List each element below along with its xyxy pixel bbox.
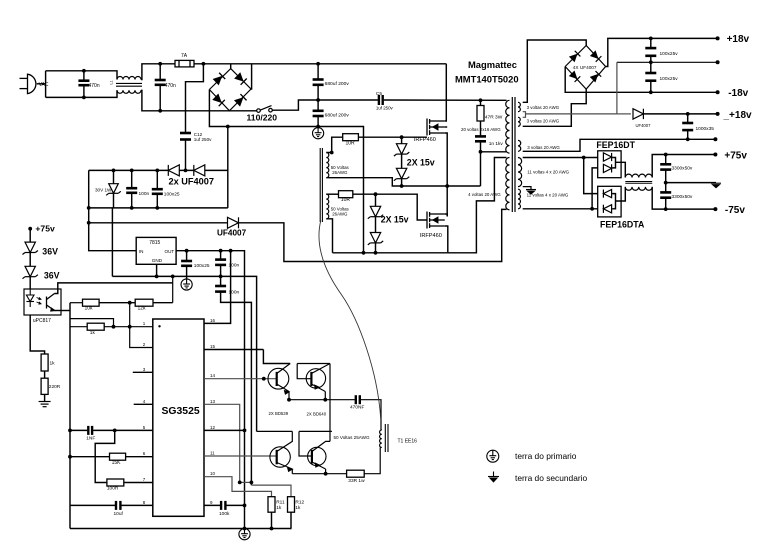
junction source rail zener [374,251,378,255]
transistor Q5 bar [276,450,278,465]
wire 100x25 col2 [156,194,158,208]
junction pin9 vcc [243,504,247,508]
wire pin4 stub [134,403,153,405]
wire Q1 mid stub [445,126,447,128]
junction zener1 bottom rail [400,184,404,188]
capacitor 3300x50v a [660,164,671,169]
junction 470n2 top [158,62,162,66]
svg-text:100x25: 100x25 [164,192,180,198]
svg-text:1000x35: 1000x35 [696,126,715,132]
junction sec4 branch [582,156,586,160]
wire 7815 GND pin [156,264,158,276]
svg-text:2X BD640: 2X BD640 [307,411,327,416]
wire Q2 drain [445,214,447,217]
svg-text:2X 15v: 2X 15v [381,214,409,224]
junction pin1 vert [128,325,132,329]
wire zener chain2 [375,194,377,253]
wire aux branch vertical [227,127,229,208]
wire pin16 line [204,251,231,324]
diode D2 UF4007 aux [194,165,205,176]
svg-text:20 voltas 2x16 AWG: 20 voltas 2x16 AWG [461,127,501,132]
transformer T1 primary core [385,424,388,452]
wire lower rail2 [299,430,332,432]
svg-text:1uf 250v: 1uf 250v [376,106,394,111]
svg-text:470NF: 470NF [350,404,364,410]
svg-text:36V: 36V [44,271,60,281]
wire primary2 top path [448,158,507,253]
svg-text:UF4007: UF4007 [636,123,652,128]
rectifier U4 FEP16DTA box [598,186,621,217]
wire opto collector drop [172,276,174,302]
wire upper rail2 [297,363,330,365]
zener ZD3 15v [368,206,383,218]
svg-text:470n: 470n [165,83,176,89]
wire Q1 source [445,133,447,217]
wire Q3 emitter drop [288,392,290,400]
svg-text:1NF: 1NF [86,436,95,442]
wire mid18 rail [617,61,718,63]
wire pin6 line b [126,456,153,458]
wire AC bottom to choke [46,90,117,97]
wire pin5 line b [93,429,153,431]
svg-text:12: 12 [210,425,216,430]
wire pin9 line b [226,504,244,506]
svg-text:1k: 1k [276,505,282,511]
junction +18 cap [649,37,653,41]
junction aux bottom 100x25 [155,206,159,210]
curve T1 coupling [319,221,381,421]
wire snubber col [480,100,482,105]
svg-text:IRFP460: IRFP460 [420,233,442,239]
transistor Q5 emitter [277,463,293,472]
wire +75 rail [652,155,715,178]
transistor Q6 BD640 circle [308,447,326,465]
wire AC left vertical [45,71,47,98]
transformer T2 secondary 3 [518,140,521,151]
wire 470n2 top stub [159,64,161,80]
terminal _+18v [716,112,720,116]
diode bridge B2 top-left [569,51,580,62]
wire 1k to pin1 [104,326,153,328]
junction pin6 left [68,455,72,459]
junction source rail minus [362,251,366,255]
wire source rail [333,252,448,254]
wire 1000x35 col2 [687,130,689,139]
wire cap100x25a col2 [650,56,652,63]
wire pin1 net vert [130,303,153,348]
wire FEPDT out [616,162,626,177]
wire minus bus [209,90,363,253]
svg-text:2X 15v: 2X 15v [407,158,435,168]
svg-text:C5: C5 [376,91,382,97]
transformer T2 primary 2 [506,158,510,210]
transistor Q4 emitter [311,384,325,392]
resistor 33R 1W [347,470,365,477]
wire Q2 source [445,226,448,253]
svg-text:470n: 470n [89,83,100,89]
legend ground primary symbol [487,450,499,462]
junction top rail C12 branch [202,62,206,66]
wire C5 to primary [384,99,507,101]
wire LED cathode [30,315,44,354]
svg-text:Magmattec: Magmattec [468,59,517,70]
wire 10k line [70,302,83,304]
wire top rail after fuse [194,63,446,65]
wire secB bottom down [326,219,332,253]
svg-text:10uf: 10uf [114,511,124,517]
svg-text:3 voltas 20 AWG: 3 voltas 20 AWG [527,145,560,150]
wire lower rail1 [257,430,293,432]
wire snubber bottom [480,141,482,152]
resistor 100R [107,479,124,486]
junction top rail bulk cap [316,62,320,66]
svg-text:220R: 220R [49,384,61,390]
junction +75 cap [664,153,668,157]
resistor 220R [41,378,48,394]
svg-text:1k: 1k [295,505,301,511]
svg-text:7A: 7A [181,53,188,59]
svg-text:T1 EE16: T1 EE16 [398,439,418,445]
capacitor 470NF [356,395,360,404]
wire opto emitter [55,310,71,312]
wire sec1 top to bridge2 [523,40,587,102]
ground primary SG3525 [239,529,250,540]
transistor Q4 BD640 circle [306,369,325,388]
wire pin5 line a [70,429,87,431]
inductor L1 core [116,83,142,86]
wire pin15 drop [263,350,290,364]
wire Q6 base drop [299,431,312,456]
zener 36V a [23,242,38,254]
svg-text:100x25: 100x25 [194,263,210,269]
svg-text:1uf 250v: 1uf 250v [194,137,212,142]
wire UF4007 to feedback [239,209,507,261]
junction center rail mosfet [445,184,449,188]
capacitor 1000x35 [682,123,693,130]
svg-text:100R: 100R [107,485,119,491]
wire 100n2 col2 [221,292,252,486]
wire branch to FEPDTA d1 [584,158,598,194]
switch SW1 110/220 [257,106,273,113]
resistor 10R gate2 [339,191,353,198]
wire Q6 collector [312,441,330,451]
junction pin5 left [68,429,72,433]
wire 100x25 to gnd circle [186,266,188,279]
diode FEP16DT d2 [603,164,611,172]
capacitor 470n X2 input [78,81,89,86]
terminal -75v [713,207,717,211]
svg-text:50 Voltas 25AWG: 50 Voltas 25AWG [334,435,371,440]
optocoupler LED [26,289,41,307]
wire 1k loop [70,319,114,327]
transistor Q3 BD539 circle [268,368,289,389]
IC U1 SG3525 body [153,319,204,516]
wire FEPDTA out [616,187,626,201]
terminal mid18 [716,60,720,64]
junction secA top [330,151,334,155]
rectifier U3 FEP16DT box [598,151,621,178]
wire aux to 7815 IN [89,170,137,250]
svg-text:26AWG: 26AWG [332,170,348,175]
junction y482 b [250,481,254,485]
svg-text:16: 16 [210,318,216,323]
junction sec5 branch [590,207,594,211]
wire sec4 top to FEP [523,157,598,159]
wire sense col2 [29,253,31,267]
transistor Q2 IRFP460 bottom [427,212,445,229]
svg-text:FEP16DTA: FEP16DTA [600,219,645,229]
wire UF4007 feedback line [89,222,228,224]
svg-text:4 voltas 20 AWG: 4 voltas 20 AWG [468,192,501,197]
capacitor 100x25v a [645,48,656,56]
svg-text:+18v: +18v [727,34,750,45]
junction GND 100n1 [219,275,223,279]
wire pin11 line [204,455,277,457]
svg-text:15K: 15K [112,460,122,466]
svg-text:1k: 1k [50,361,56,367]
wire opto emitter rail [69,303,71,529]
wire 100x25 col [156,170,158,188]
wire AC top to choke [46,71,117,80]
diode bridge B2 bottom-left [569,71,580,82]
wire between bulk caps [317,85,319,110]
junction gnd rail 1000x35 [686,137,690,141]
wire R12 bottom [290,512,292,528]
capacitor 100k [221,501,225,510]
junction aux to UF4007 line [87,221,91,225]
capacitor 10uf [116,501,120,510]
wire 10R to gate1 [358,136,427,138]
wire pin9 line a [204,504,220,506]
svg-text:14: 14 [210,373,216,378]
ground earth divider [39,402,51,407]
wire 100n1 col [220,251,222,259]
transformer T1 secondary B [326,194,328,219]
junction pin14 line [262,377,266,381]
junction OUT 100x25 [185,249,189,253]
junction minus bus cap [316,125,320,129]
wire Q1 drain [445,64,447,121]
transistor Q6 bar [311,450,313,464]
wire FEPDTA join [612,194,615,209]
wire sec3 bottom to gnd rail [523,139,716,151]
capacitor 100x25 out [181,261,192,266]
diode bridge B2 bottom-right [590,71,601,82]
junction mid75 cap [664,181,668,185]
wire pin13 line [204,404,240,482]
terminal +75v sense [28,227,32,231]
diode bridge B1 top-left [213,73,226,86]
wire 100n2 col [220,276,222,285]
junction minus bus aux [226,125,230,129]
capacitor C12 1uf 250v [180,133,191,140]
junction R11 rail [270,527,274,531]
wire 100n col2 [131,193,133,208]
wire y482 link [240,481,252,483]
terminal +75v [713,153,717,157]
wire primary1 bottom [481,151,507,153]
svg-text:+75v: +75v [724,150,747,161]
diode bridge B1 bottom-right [234,94,247,107]
wire GND line [112,276,256,431]
wire R12 top line [251,485,291,497]
wire Q5 emitter drop [291,469,293,474]
diode D4 UF4007 18v [633,109,643,119]
svg-text:36V: 36V [42,247,58,257]
wire Q5 collector [277,431,293,451]
wire R11 bottom [271,512,273,528]
wire 100n1 col2 [220,265,222,277]
wire zener 30V column [113,170,115,183]
wire plug to filter top [37,83,46,85]
wire zener 30V bottom [113,193,115,208]
svg-text:FEP16DT: FEP16DT [596,140,635,150]
wire _+18 rail [643,113,717,115]
resistor R12 1k [288,497,295,513]
ground primary at 7815 [181,279,192,290]
svg-text:terra do primario: terra do primario [515,451,577,461]
wire aux bottom rail [89,207,228,209]
transformer T2 core [512,97,515,212]
transformer T2 secondary 5 [518,189,520,209]
wire zener col to GND line [111,208,113,277]
wire FEPDT join [612,158,615,168]
transformer T2 secondary 4 [518,158,522,187]
svg-text:680uf 200v: 680uf 200v [325,81,350,87]
terminal -18v [716,90,720,94]
wire 10R2 to gate2 [353,194,427,220]
junction pin5 mid [113,429,117,433]
svg-text:-75v: -75v [725,205,745,216]
svg-text:_+18v: _+18v [723,110,753,121]
junction 1000x35 top [686,112,690,116]
diode D3 UF4007 [228,217,239,228]
svg-text:10R: 10R [346,141,356,147]
svg-text:13: 13 [210,399,216,404]
junction OUT 100n [219,249,223,253]
wire bridge right stub [250,64,253,89]
svg-text:10R: 10R [341,197,351,203]
svg-text:SG3525: SG3525 [162,406,200,417]
svg-text:7815: 7815 [149,240,160,246]
wire Q4 collector [311,364,330,374]
resistor 10k [83,299,100,306]
svg-text:terra do secundario: terra do secundario [515,473,588,483]
wire secB top to 10R2 [326,193,338,195]
transistor Q3 emitter [277,384,289,394]
wire Q4 base drop [297,364,311,379]
wire PNP collector bus [329,364,331,442]
wire R11 top [268,491,271,496]
wire aux rail [89,169,228,171]
svg-text:10: 10 [210,471,216,476]
wire pin8 line a [70,504,115,506]
wire 3300b col2 [665,198,667,209]
junction mid18 cap [649,60,653,64]
transformer T1 primary [380,430,382,448]
zener 36V b [23,266,38,278]
capacitor 470n second [155,80,166,85]
svg-text:110/220: 110/220 [247,112,278,122]
capacitor 680uf 200v top [313,80,324,85]
junction gate2 zener [374,192,378,196]
wire Q3 collector [277,364,291,374]
ground primary at bulk caps [313,128,324,139]
fuse F1 7A [175,60,194,67]
wire pin8 line b [121,504,152,506]
wire pin7 line [124,482,153,484]
junction aux bottom 100n [130,206,134,210]
svg-text:2x UF4007: 2x UF4007 [169,177,214,187]
wire 100x25 out col [186,251,188,260]
junction Q4 out [323,398,327,402]
zener ZD1 15v [394,144,409,156]
wire -75 rail [652,187,715,209]
resistor R11 1k [268,497,275,513]
wire pin15 line [204,349,263,351]
junction -18 cap [649,90,653,94]
wire +18 rail [606,38,718,66]
svg-text:1n 1kv: 1n 1kv [489,141,504,147]
svg-text:10k: 10k [85,306,94,312]
wire pin14 line [204,378,277,380]
wire pin6 line a [70,456,110,458]
junction bottom rail gnd [243,527,247,531]
wire -18 rail [565,67,717,93]
junction pin12 vcc [243,429,247,433]
capacitor 1n 1kv [475,136,486,141]
svg-text:IRFP460: IRFP460 [414,137,436,143]
inductor L2 +75 choke [625,174,652,177]
junction snubber top [479,98,483,102]
svg-text:3 voltas 20 AWG: 3 voltas 20 AWG [527,119,560,124]
resistor 1k fb [87,323,104,330]
junction aux rail 100x25 [155,169,159,173]
wire sec5 bottom to FEPDTA [523,208,598,210]
diode FEP16DT d1 [603,153,611,161]
junction aux rail 100n [130,169,134,173]
wire cap100x25b col2 [650,81,652,93]
wire 3300a col [665,155,667,164]
junction OUT pin16 branch [229,249,233,253]
svg-text:11 voltas 4 x 20 AWG: 11 voltas 4 x 20 AWG [527,170,569,175]
wire C12 to aux rail [185,140,187,171]
wire 75v center tap [523,187,531,189]
transformer T1 secondary A [326,153,329,178]
capacitor 100n reg2 [215,286,226,292]
wire bridge2 frame [565,46,605,90]
wire cap100x25b col [650,62,652,72]
junction gate1 zener [400,135,404,139]
resistor 15K [110,453,126,460]
diode bridge B1 bottom-left [212,94,225,107]
wire 12k up [153,302,173,304]
capacitor 100n reg1 [215,260,226,265]
terminal +18v [716,36,720,40]
diode bridge B1 top-right [234,72,247,85]
wire 33R to T1 [364,448,380,474]
wire cap 470n stub [83,71,85,81]
wire lower out rail [292,473,346,475]
legend ground secondary symbol [488,472,499,482]
wire choke out bottom [141,90,258,111]
wire bridge frame [209,69,251,111]
svg-text:26AWG: 26AWG [332,212,348,217]
svg-text:100x25v: 100x25v [660,51,679,57]
wire branch to FEPDT d2 [592,168,598,209]
junction aux bottom left [87,206,91,210]
wire upper out rail [289,399,355,401]
